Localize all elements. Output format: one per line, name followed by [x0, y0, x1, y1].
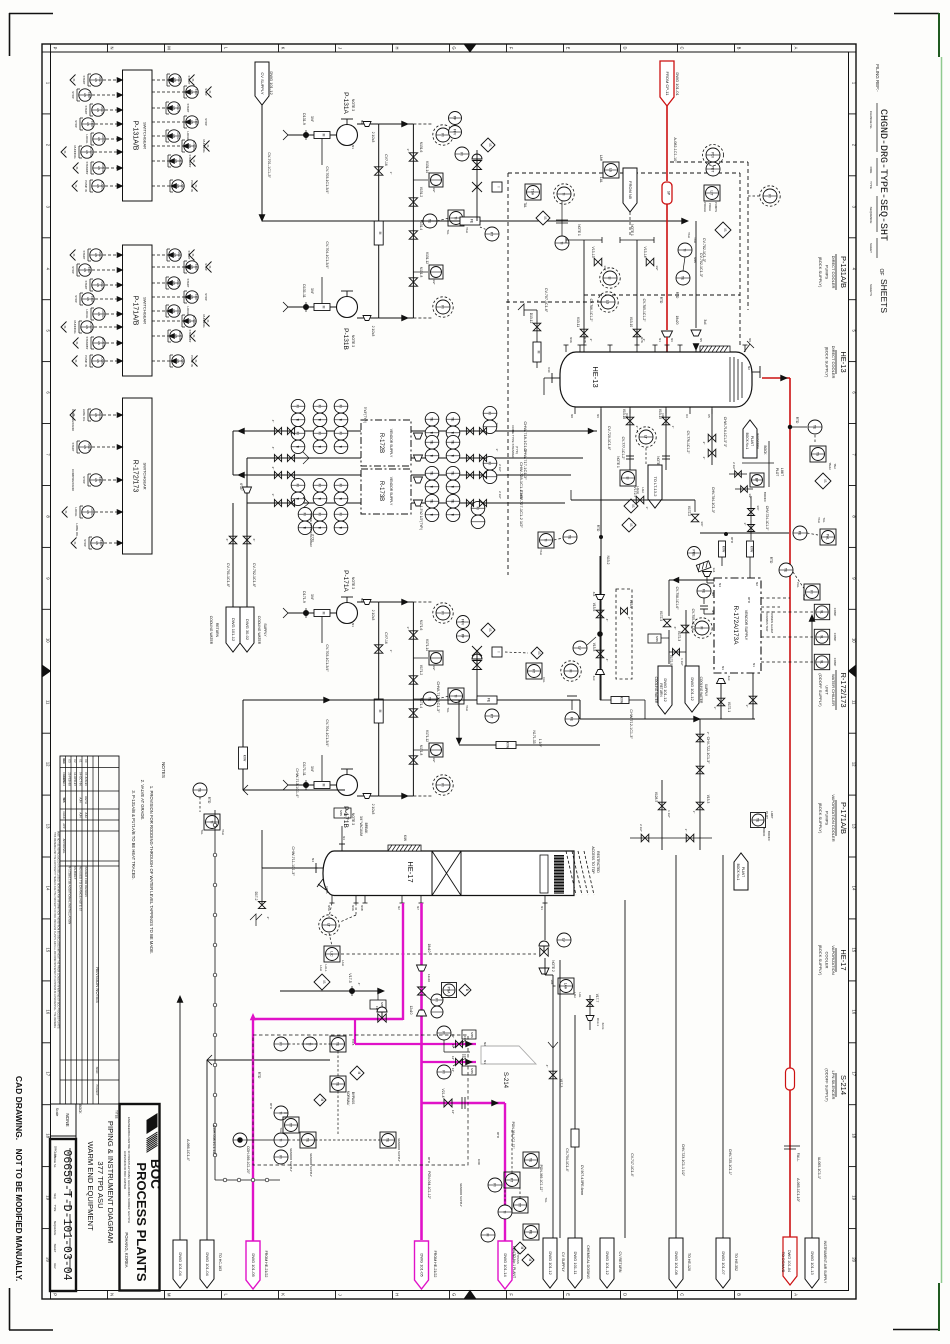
svg-text:TI: TI	[339, 497, 343, 500]
svg-text:V13-11: V13-11	[576, 317, 580, 327]
svg-text:STOP: STOP	[194, 119, 197, 126]
magenta jog down to silencer feed	[354, 1019, 356, 1044]
FE station at magenta	[378, 1014, 386, 1022]
svg-text:BREAK: BREAK	[364, 823, 368, 835]
pressure instrument bottom	[413, 317, 433, 319]
svg-text:PI: PI	[441, 305, 445, 308]
svg-text:PT: PT	[510, 1178, 514, 1182]
svg-text:(BOCK SUPPLY): (BOCK SUPPLY)	[818, 803, 823, 834]
svg-text:R-173B: R-173B	[378, 481, 384, 501]
svg-text:LIC: LIC	[330, 951, 334, 957]
switchgear P-171A/B pushbutton R	[186, 291, 198, 303]
svg-text:SIGN: SIGN	[95, 1067, 99, 1074]
svg-text:FI: FI	[339, 405, 343, 408]
svg-text:TE: TE	[756, 818, 760, 823]
svg-text:IS: IS	[74, 185, 78, 188]
green registration line right edge	[941, 57, 943, 1283]
svg-text:1 1/2″: 1 1/2″	[667, 810, 671, 818]
svg-text:A-065-1C1-10″: A-065-1C1-10″	[796, 1178, 800, 1203]
svg-text:IS: IS	[72, 254, 76, 257]
svg-text:HS: HS	[86, 510, 90, 514]
svg-text:2 1/2″: 2 1/2″	[732, 462, 736, 470]
svg-text:K/W: K/W	[403, 835, 407, 841]
svg-text:TI: TI	[210, 820, 214, 823]
svg-text:COOLING WATER: COOLING WATER	[654, 677, 658, 704]
svg-text:N13-2: N13-2	[606, 556, 610, 565]
LIC square below vessel	[620, 470, 636, 486]
svg-text:3″: 3″	[743, 523, 747, 526]
svg-text:SP: SP	[667, 191, 671, 195]
svg-text:PI: PI	[441, 783, 445, 786]
svg-text:TAH: TAH	[539, 549, 543, 555]
crop mark bottom-left	[9, 1329, 53, 1331]
svg-text:PF: PF	[461, 634, 465, 638]
svg-text:13: 13	[45, 824, 50, 829]
right cluster near magenta LPN line	[523, 1152, 539, 1168]
svg-text:P-171A/B: P-171A/B	[132, 296, 139, 326]
svg-text:17: 17	[45, 1071, 50, 1076]
svg-text:LALL: LALL	[324, 964, 328, 971]
svg-text:1/2″: 1/2″	[432, 279, 436, 284]
svg-text:AGTH: AGTH	[84, 796, 88, 804]
svg-text:LOCAL: LOCAL	[101, 135, 104, 144]
svg-text:STOP: STOP	[71, 91, 75, 99]
svg-text:CV-703-1C1-3/4″: CV-703-1C1-3/4″	[325, 166, 329, 194]
svg-text:TI: TI	[451, 454, 455, 457]
svg-text:V131-12: V131-12	[425, 252, 429, 264]
switchgear P-131A/B pushbutton L	[81, 146, 93, 158]
svg-text:PE: PE	[529, 1230, 533, 1235]
TE TI pair below vessel left	[563, 530, 577, 544]
svg-text:RUNNING: RUNNING	[202, 314, 206, 327]
magenta horizontal main	[253, 1018, 403, 1020]
LV circle left chain	[573, 641, 587, 655]
svg-text:ISSUED FOR DESIGN: ISSUED FOR DESIGN	[84, 866, 88, 897]
svg-text:N1: N1	[483, 1060, 487, 1064]
svg-text:LUBE OIL: LUBE OIL	[98, 410, 101, 421]
svg-text:(BOCK SUPPLY): (BOCK SUPPLY)	[818, 257, 823, 288]
line CHW-717-1C1-3	[247, 457, 583, 459]
orifice flow element upper	[460, 217, 480, 225]
svg-text:1/2″: 1/2″	[748, 493, 752, 498]
svg-text:6mm: 6mm	[601, 1023, 605, 1030]
svg-text:HS: HS	[83, 268, 87, 272]
svg-text:SUPPLY: SUPPLY	[704, 684, 708, 697]
svg-text:FI: FI	[339, 432, 343, 435]
svg-text:STOP: STOP	[99, 540, 102, 547]
HE-13 top hatch band	[700, 346, 730, 352]
svg-text:P-131B: P-131B	[342, 328, 349, 350]
svg-text:STOP: STOP	[90, 296, 93, 303]
svg-text:IS: IS	[72, 79, 76, 82]
svg-text:2″: 2″	[702, 442, 706, 445]
svg-text:07-JUN-96: 07-JUN-96	[84, 772, 88, 786]
svg-text:DWG 30-02: DWG 30-02	[245, 619, 250, 641]
svg-text:RTD: RTD	[747, 597, 751, 604]
svg-text:IS: IS	[73, 542, 77, 545]
svg-text:PLOT: PLOT	[765, 811, 769, 819]
HE-13 nozzles top	[565, 345, 567, 352]
svg-text:TAH: TAH	[802, 594, 806, 600]
pump P-171A	[337, 603, 358, 624]
svg-text:4″: 4″	[357, 983, 361, 986]
svg-text:3/4″: 3/4″	[310, 594, 314, 601]
switchgear P-131A/B pushbutton L	[82, 118, 94, 130]
valve V172-4	[663, 619, 671, 627]
svg-text:V13-16: V13-16	[622, 409, 626, 420]
svg-text:MIN: MIN	[470, 1032, 474, 1038]
svg-text:FI: FI	[488, 412, 492, 415]
svg-text:RTD: RTD	[769, 557, 773, 564]
svg-text:V171-14: V171-14	[425, 639, 429, 651]
dashed links chiller to right	[761, 597, 790, 599]
svg-text:START: START	[100, 281, 103, 289]
HE-17 open end dashes	[566, 851, 576, 895]
svg-text:TE: TE	[428, 697, 432, 702]
svg-text:M: M	[322, 612, 326, 615]
svg-text:TI: TI	[279, 1138, 283, 1141]
svg-text:3/4″ VACUUM: 3/4″ VACUUM	[359, 816, 363, 836]
pump P-131A discharge	[357, 123, 379, 125]
svg-text:HS: HS	[94, 253, 98, 257]
discharge header risers	[378, 124, 380, 318]
svg-text:IS: IS	[488, 628, 492, 631]
svg-text:ACCESS TO TOP: ACCESS TO TOP	[591, 846, 595, 874]
svg-text:STANDBY: STANDBY	[85, 161, 89, 174]
svg-text:N131-6: N131-6	[419, 142, 423, 153]
svg-text:TE: TE	[430, 471, 434, 476]
HE-17 X brace panel	[431, 851, 433, 896]
svg-text:LAH: LAH	[599, 155, 603, 162]
svg-text:CV-786-1C1-2″: CV-786-1C1-2″	[589, 299, 593, 323]
svg-text:PI: PI	[493, 1183, 497, 1186]
svg-text:NOTE 1: NOTE 1	[616, 456, 620, 468]
svg-text:BOOFF: BOOFF	[767, 831, 771, 842]
svg-text:V171-12: V171-12	[425, 730, 429, 742]
svg-text:TI: TI	[318, 418, 322, 421]
svg-text:(BOCK SUPPLY): (BOCK SUPPLY)	[825, 347, 830, 378]
switchgear P-171A/B pushbutton L	[82, 293, 94, 305]
switchgear R-172/173 pushbutton L	[82, 506, 94, 518]
svg-text:3/4″: 3/4″	[310, 288, 314, 295]
svg-text:K/W: K/W	[722, 546, 726, 553]
svg-text:N6: N6	[711, 592, 715, 596]
svg-text:DWG 101-04: DWG 101-04	[787, 1250, 791, 1272]
silencer S-214	[481, 1046, 536, 1064]
crop mark top-left	[9, 13, 53, 15]
centering triangle top	[464, 44, 476, 52]
switchgear P-131A/B pushbutton L	[92, 104, 104, 116]
svg-text:M: M	[537, 351, 541, 354]
svg-text:TAH: TAH	[817, 517, 821, 523]
inner border frame	[51, 52, 849, 1291]
svg-text:COOLING WATER: COOLING WATER	[209, 616, 213, 645]
svg-text:N6B: N6B	[360, 905, 364, 911]
svg-text:DIRECT COOLER: DIRECT COOLER	[831, 346, 836, 379]
svg-text:6″: 6″	[225, 539, 229, 542]
svg-text:PGN-064-1C1-12″: PGN-064-1C1-12″	[427, 1171, 431, 1199]
svg-text:N6A: N6A	[351, 905, 355, 911]
svg-text:LT: LT	[327, 923, 331, 927]
pressure instrument top	[413, 601, 433, 603]
svg-text:TI: TI	[544, 538, 548, 541]
svg-text:TE: TE	[198, 788, 202, 793]
svg-text:IS: IS	[322, 980, 326, 983]
svg-text:IS: IS	[63, 326, 67, 329]
svg-text:FFV: FFV	[453, 129, 457, 136]
right small valves column	[735, 471, 742, 478]
svg-text:FE: FE	[487, 698, 491, 703]
svg-text:CHANGE No.: CHANGE No.	[869, 111, 873, 130]
svg-text:K/W: K/W	[620, 697, 624, 704]
svg-text:A: A	[794, 47, 799, 50]
svg-text:PUMPS: PUMPS	[825, 265, 830, 280]
svg-text:TAH: TAH	[833, 463, 837, 468]
magenta low horizontal	[422, 1102, 506, 1104]
svg-text:LOCAL: LOCAL	[176, 307, 179, 316]
svg-text:CV SUPPLY: CV SUPPLY	[260, 72, 265, 94]
svg-text:TAL: TAL	[200, 829, 204, 835]
svg-text:MIN: MIN	[655, 636, 659, 642]
svg-text:HE-17: HE-17	[839, 949, 848, 970]
svg-text:CHV-723-1C1-1 1/2″: CHV-723-1C1-1 1/2″	[681, 1144, 685, 1177]
svg-text:START: START	[187, 76, 191, 85]
N3 outlet	[717, 679, 726, 684]
svg-text:PSA: PSA	[447, 987, 451, 995]
svg-text:FE: FE	[470, 219, 474, 224]
R-172B vendor box	[361, 420, 411, 466]
valve V172-5	[673, 649, 680, 656]
line CHW-718-1C1-3	[233, 430, 597, 432]
svg-text:1000: 1000	[477, 1159, 481, 1166]
svg-text:TI: TI	[683, 248, 687, 251]
bell into N4	[703, 572, 712, 577]
IS diamonds below vessel	[624, 499, 638, 513]
gauge circles left of R-172B	[291, 399, 305, 413]
svg-text:DRG: DRG	[869, 167, 873, 174]
svg-text:03: 03	[67, 759, 71, 763]
crop mark bottom-right	[893, 1329, 939, 1331]
svg-text:PT: PT	[490, 714, 494, 718]
svg-text:XL: XL	[820, 610, 824, 614]
HE-17 top nozzle N3 vacuum break	[341, 844, 343, 851]
svg-text:START: START	[84, 106, 88, 115]
line to CHEMICAL DOSING banner	[574, 1015, 576, 1238]
HE-17 right outlet lines	[544, 903, 546, 940]
svg-text:P: P	[53, 47, 58, 50]
svg-text:RUNNING: RUNNING	[89, 146, 92, 157]
svg-text:SWITCHGEAR: SWITCHGEAR	[143, 462, 148, 489]
vertical line x180 with up arrow	[179, 996, 181, 1240]
svg-text:14: 14	[851, 886, 856, 891]
svg-text:K3: K3	[685, 414, 689, 418]
svg-text:HS: HS	[97, 137, 101, 141]
switchgear P-171A/B pushbutton R	[169, 249, 181, 261]
svg-text:D: D	[623, 46, 628, 49]
svg-text:2 1/2x3: 2 1/2x3	[371, 132, 375, 143]
svg-text:TITLE: TITLE	[115, 1110, 119, 1119]
svg-text:N1: N1	[658, 338, 662, 342]
svg-text:B: B	[737, 47, 742, 50]
svg-text:PGN-069-1C1-12″: PGN-069-1C1-12″	[539, 1165, 543, 1193]
svg-text:1/2″: 1/2″	[432, 665, 436, 670]
svg-text:N13A: N13A	[325, 887, 329, 894]
svg-text:SHEETS: SHEETS	[869, 284, 873, 296]
svg-text:M: M	[167, 1293, 172, 1297]
svg-text:S-214: S-214	[502, 1072, 508, 1089]
pump P-131B	[337, 297, 358, 318]
svg-text:V13-10: V13-10	[629, 317, 633, 328]
svg-text:START: START	[98, 251, 101, 259]
svg-text:PGN-064-1C1-12″: PGN-064-1C1-12″	[511, 1122, 515, 1150]
switchgear P-131A/B pushbutton R	[186, 86, 198, 98]
CV supply drop line	[261, 105, 263, 215]
valves on CHW lines right	[466, 427, 473, 434]
svg-text:N1: N1	[351, 623, 355, 627]
svg-text:TE: TE	[784, 568, 788, 573]
banner CV RETURN	[600, 1238, 614, 1288]
svg-text:FI: FI	[296, 484, 300, 487]
svg-text:RTD: RTD	[795, 417, 799, 424]
LS square instrument	[603, 162, 619, 178]
svg-text:4x3: 4x3	[592, 676, 596, 681]
left long vertical to HE-17 area	[242, 700, 244, 790]
svg-text:IS: IS	[723, 228, 727, 231]
svg-text:START: START	[177, 251, 180, 259]
svg-text:TAHH: TAHH	[828, 462, 832, 469]
svg-text:IS: IS	[74, 360, 78, 363]
control valve station lower	[473, 661, 482, 670]
V13-16 branch	[629, 409, 631, 470]
svg-text:MUST NOT BE REPRODUCED OR DISC: MUST NOT BE REPRODUCED OR DISCLOSED, NOR…	[57, 831, 60, 1030]
svg-text:V172-7: V172-7	[633, 487, 637, 498]
switchgear P-131A/B pushbutton R	[169, 74, 181, 86]
LV valve right	[540, 948, 548, 956]
svg-text:FI: FI	[476, 507, 480, 510]
svg-text:LOCAL: LOCAL	[101, 310, 104, 319]
svg-text:STOP: STOP	[194, 89, 197, 96]
svg-text:04-OCT-96: 04-OCT-96	[78, 772, 82, 786]
svg-text:STOP: STOP	[98, 477, 101, 484]
V13 valve column lower right	[696, 802, 704, 810]
switchgear R-172/173 box	[123, 398, 153, 554]
svg-text:DWG 101-11: DWG 101-11	[573, 1251, 578, 1275]
svg-text:FI: FI	[488, 462, 492, 465]
svg-text:BOCK: BOCK	[763, 445, 767, 455]
banner DWG 101-04 left	[173, 1240, 187, 1288]
svg-text:VENDOR SUPPLY: VENDOR SUPPLY	[744, 610, 748, 641]
switchgear P-131A/B pushbutton L	[93, 133, 105, 145]
svg-text:N4: N4	[718, 583, 722, 587]
svg-text:LOCAL: LOCAL	[85, 134, 89, 144]
svg-text:FFV: FFV	[461, 619, 465, 626]
svg-text:START: START	[82, 251, 86, 260]
svg-text:LOCAL: LOCAL	[90, 508, 93, 517]
svg-text:6″x4″: 6″x4″	[239, 483, 243, 491]
svg-text:TI: TI	[303, 526, 307, 529]
svg-text:FROM HE-21/22: FROM HE-21/22	[264, 1251, 268, 1278]
svg-text:N3: N3	[342, 836, 346, 840]
V13-15 branch	[665, 409, 667, 470]
svg-text:3x4: 3x4	[703, 319, 707, 324]
banner TO HE-352	[716, 1238, 730, 1288]
V172-7 line	[571, 499, 695, 501]
svg-text:DWG 101-04: DWG 101-04	[178, 1252, 183, 1276]
V13-14 valve branch	[636, 240, 638, 345]
svg-text:COMP: COMP	[833, 658, 837, 667]
svg-text:19: 19	[851, 1195, 856, 1200]
svg-text:FI: FI	[318, 484, 322, 487]
svg-text:2″: 2″	[635, 426, 639, 429]
svg-text:DWG 101-04: DWG 101-04	[205, 1252, 210, 1276]
svg-text:IS: IS	[537, 651, 541, 654]
svg-text:D13-12: D13-12	[529, 313, 533, 324]
svg-text:STANDBY: STANDBY	[85, 336, 89, 349]
svg-text:4x3: 4x3	[727, 676, 731, 681]
top margin scale letters	[50, 44, 52, 52]
svg-text:3″: 3″	[406, 627, 410, 630]
svg-text:CHV-722-1C1-3″: CHV-722-1C1-3″	[706, 737, 710, 765]
line to CV SUPPLY banner	[559, 960, 561, 1238]
svg-text:TO HC-163: TO HC-163	[218, 1253, 222, 1271]
red supply line vertical	[666, 106, 668, 181]
svg-text:TI: TI	[318, 497, 322, 500]
svg-text:FE: FE	[570, 717, 574, 722]
HE-13 left nozzle N10	[552, 377, 560, 379]
svg-text:PI: PI	[441, 611, 445, 614]
revision table	[60, 756, 119, 1104]
svg-text:1″: 1″	[692, 811, 696, 814]
svg-text:10: 10	[851, 638, 856, 643]
svg-text:3/4″: 3/4″	[700, 521, 704, 526]
pump P-131B discharge	[357, 317, 379, 319]
svg-text:TE: TE	[451, 471, 455, 476]
svg-text:V128-5: V128-5	[654, 792, 658, 803]
check valve upper	[375, 645, 383, 653]
svg-text:OF: OF	[878, 269, 884, 276]
svg-text:(TYP.): (TYP.)	[311, 534, 315, 542]
svg-text:17: 17	[851, 1071, 856, 1076]
svg-text:P-131A/B: P-131A/B	[839, 256, 848, 288]
line CHW-727	[247, 502, 565, 504]
svg-text:00: 00	[84, 759, 88, 763]
svg-text:IS: IS	[631, 504, 635, 507]
svg-text:LAL: LAL	[578, 993, 582, 998]
svg-text:4″: 4″	[605, 659, 609, 662]
svg-text:TAH: TAH	[465, 705, 469, 711]
svg-text:WARM END EQUIPMENT: WARM END EQUIPMENT	[86, 1141, 95, 1231]
svg-text:STANDBY: STANDBY	[178, 155, 181, 167]
V17-3 valve	[549, 1071, 557, 1079]
svg-text:STOP: STOP	[82, 476, 86, 484]
check valve upper	[375, 167, 383, 175]
branch V-12	[413, 271, 428, 273]
magenta line from HE-17 N7	[420, 903, 423, 1240]
svg-text:DWG 101-05: DWG 101-05	[251, 1253, 256, 1277]
svg-text:N2: N2	[747, 366, 751, 370]
FI dashed circle chiller	[695, 621, 709, 635]
svg-text:PDI: PDI	[711, 152, 715, 158]
instrument air line	[811, 615, 813, 1238]
svg-text:STOP: STOP	[204, 88, 208, 96]
svg-text:V171-2: V171-2	[419, 665, 423, 676]
svg-text:STANDBY: STANDBY	[188, 329, 192, 342]
diamond pump interlock	[715, 222, 731, 238]
svg-text:N1: N1	[752, 663, 756, 667]
svg-text:CV-704-1C1-3/4″: CV-704-1C1-3/4″	[325, 719, 329, 747]
switchgear P-171A/B box	[123, 245, 153, 376]
svg-text:RTD: RTD	[596, 525, 600, 532]
